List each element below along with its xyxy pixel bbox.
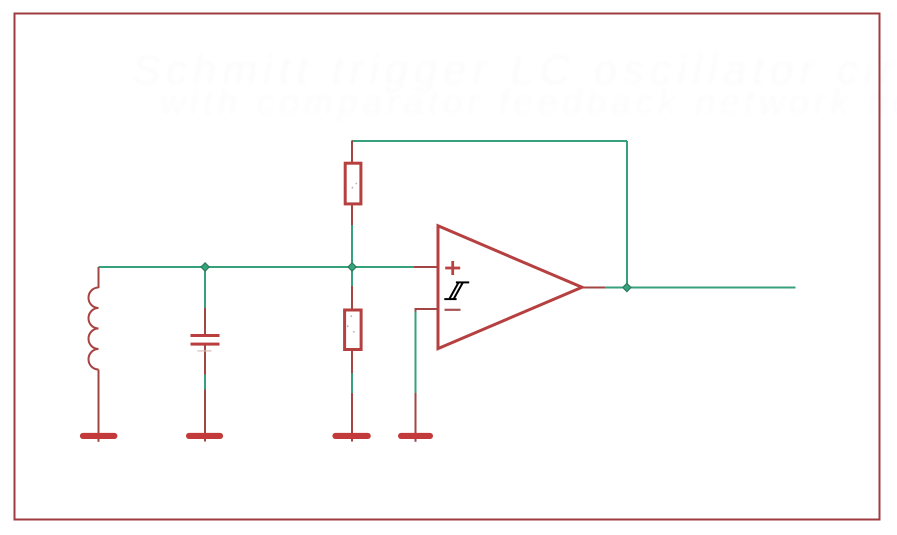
wire capacitor top green	[204, 267, 206, 308]
wire R1-R2 vertical green	[351, 225, 353, 286]
wire R2 ground stub red	[351, 393, 353, 442]
wire inverting input ground stub red	[415, 393, 417, 442]
capacitor C1 plate bottom	[191, 343, 220, 346]
op-amp minus label	[445, 309, 461, 311]
op-amp U1	[438, 226, 582, 349]
wire R1 bottom stub red	[351, 205, 353, 226]
wire inductor top red	[98, 267, 100, 288]
resistor R2 ghost dots	[347, 315, 355, 332]
capacitor C1 faint tick	[198, 350, 212, 351]
wire main horizontal net	[99, 266, 415, 268]
wire R2 lower green	[351, 373, 353, 393]
ground R2	[332, 433, 370, 439]
wire output stub red	[583, 287, 605, 289]
wire plus input stub red	[414, 266, 437, 268]
resistor R1 ghost dots	[352, 183, 358, 189]
wire capacitor ground red	[204, 390, 206, 442]
capacitor C1 plate top	[191, 334, 220, 337]
wire inductor bottom red	[98, 370, 100, 442]
wire R2 top stub red	[351, 286, 353, 309]
wire top feedback horizontal	[352, 140, 627, 142]
wire R2 bottom stub red	[351, 351, 353, 374]
node junction A	[201, 263, 209, 271]
wire R1 top stub red	[351, 141, 353, 163]
inductor L1	[89, 288, 99, 370]
ground inverting input	[398, 433, 433, 439]
wire inverting input vertical green	[415, 310, 417, 393]
wire capacitor top red	[204, 308, 206, 334]
wire capacitor lower green	[204, 375, 206, 390]
resistor R2	[345, 310, 362, 350]
node junction B	[348, 263, 356, 271]
resistor R1	[345, 163, 361, 204]
op-amp hysteresis symbol	[444, 282, 469, 299]
faint watermark text	[132, 46, 897, 122]
svg-text:with comparator feedback netwo: with comparator feedback network notes	[160, 83, 897, 122]
node junction output	[623, 283, 631, 291]
wire capacitor mid red	[204, 344, 206, 375]
wire output horizontal	[605, 287, 796, 289]
ground inductor	[80, 433, 118, 439]
op-amp plus label	[445, 261, 460, 275]
wire right feedback vertical	[626, 141, 628, 288]
wire minus input stub red	[416, 309, 438, 312]
ground capacitor	[186, 433, 223, 439]
